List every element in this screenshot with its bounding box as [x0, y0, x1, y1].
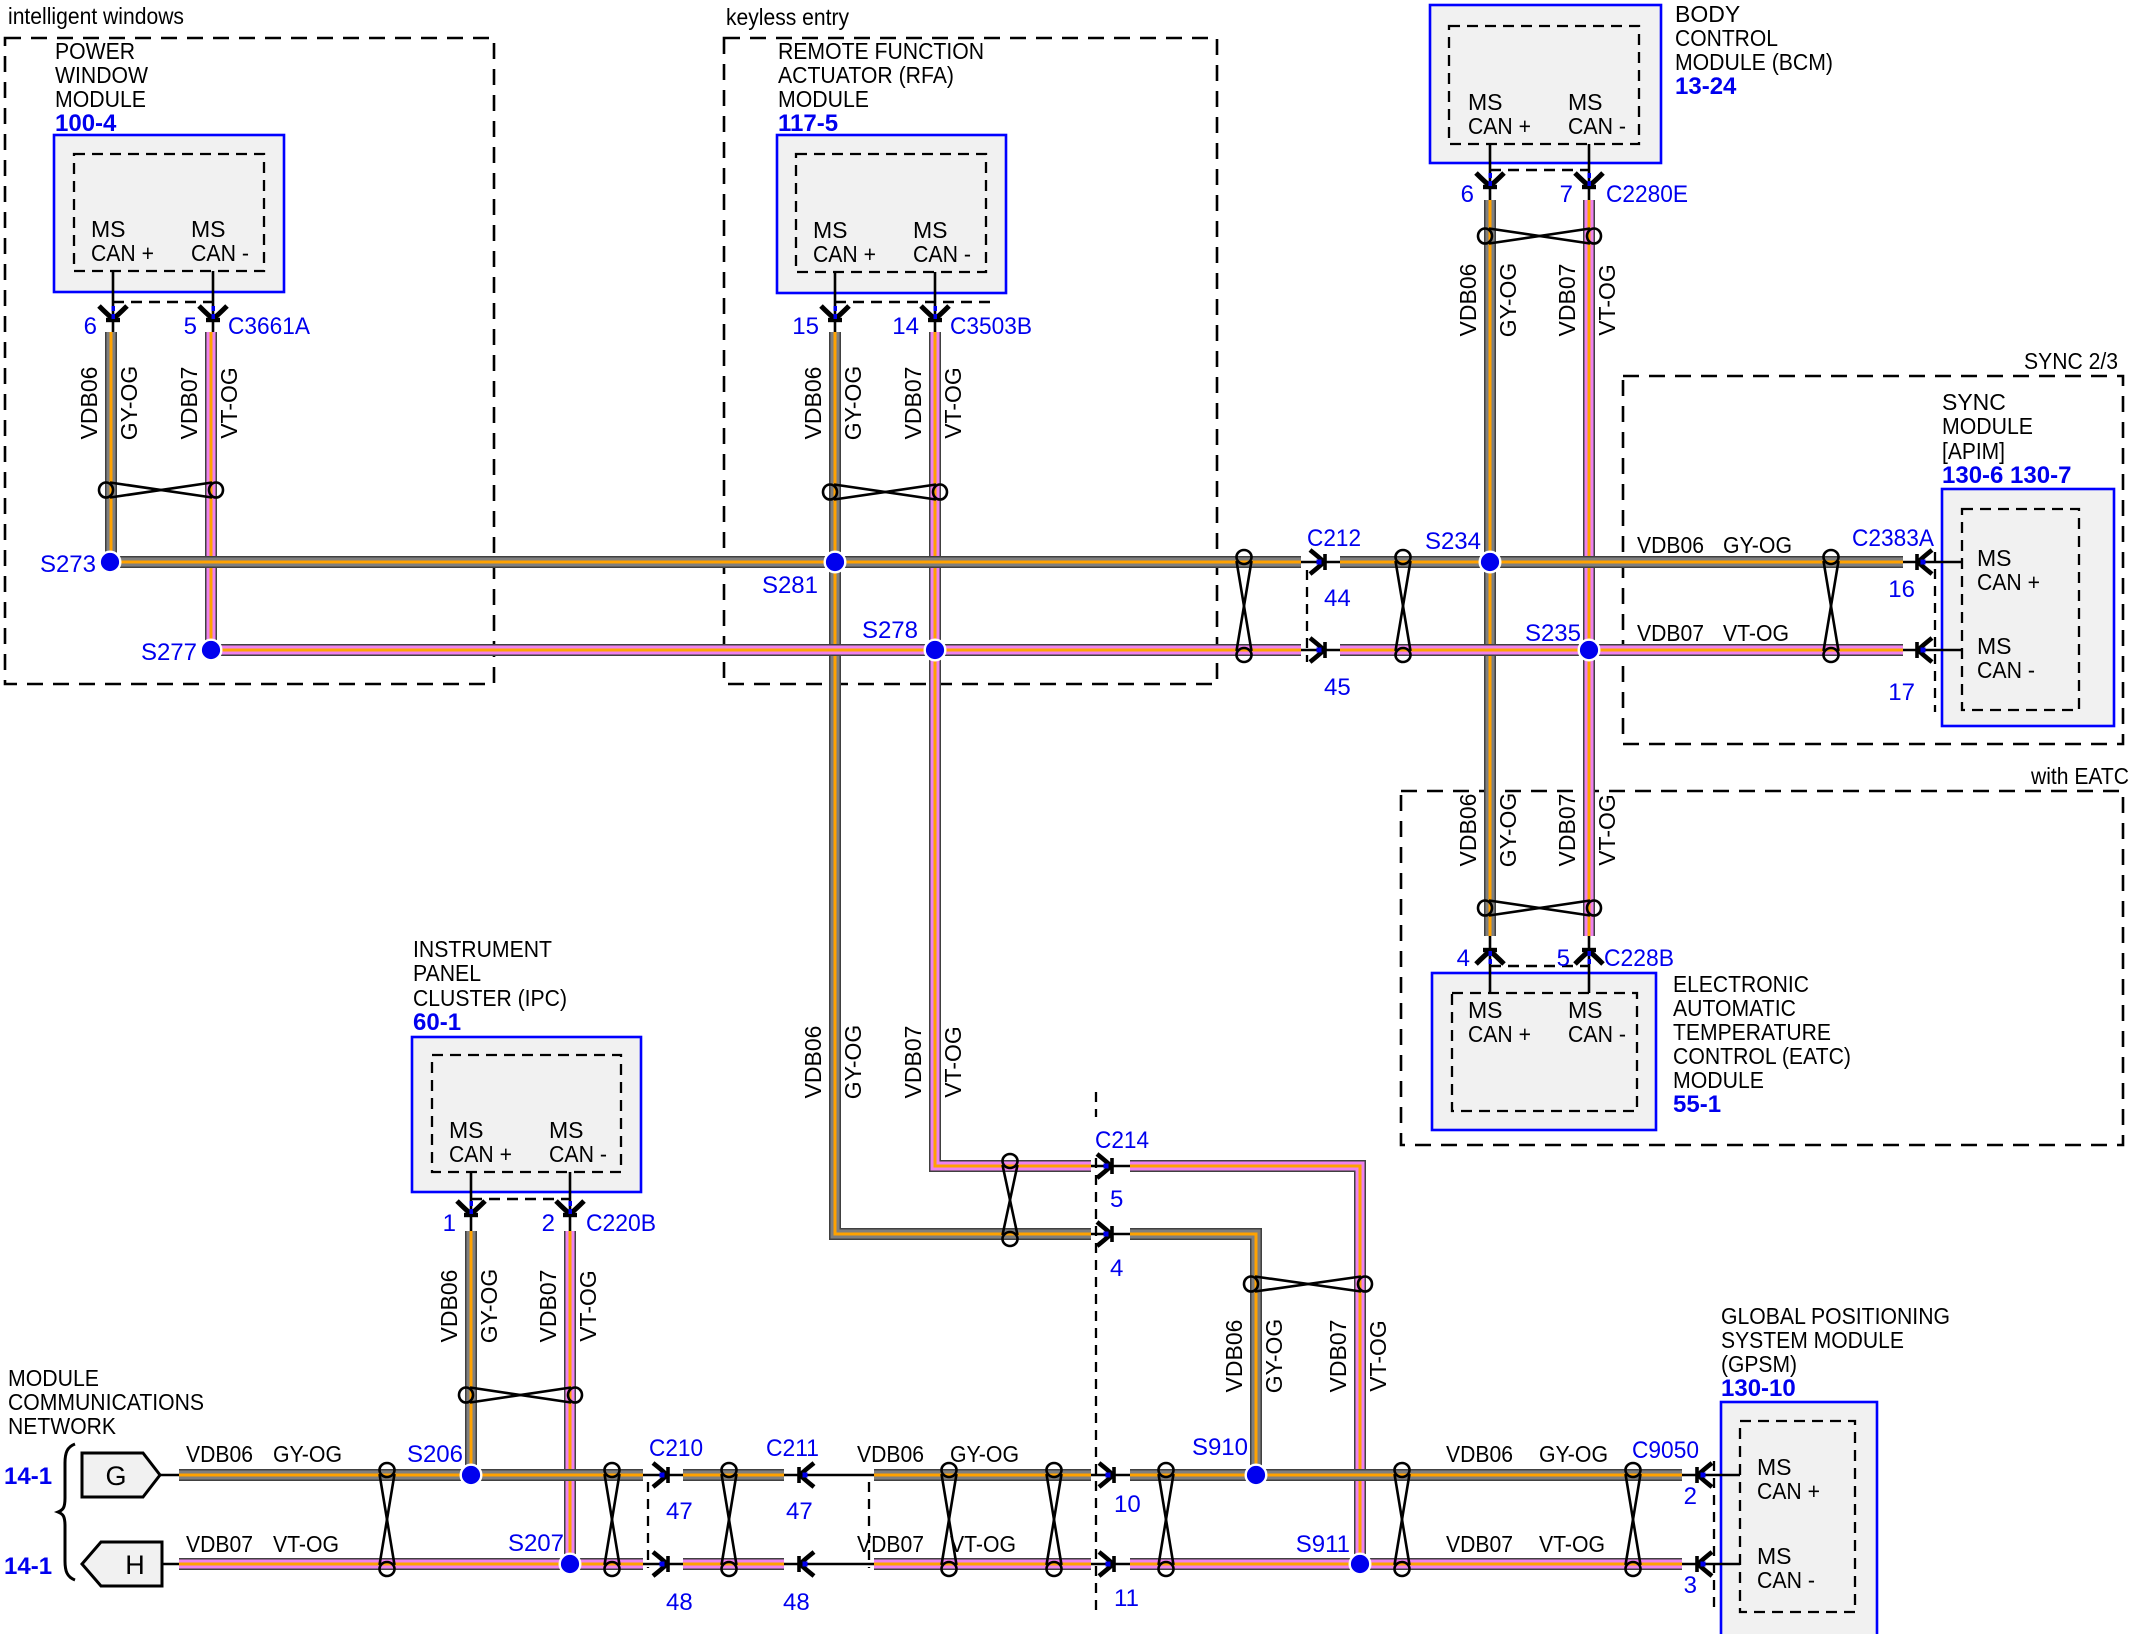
svg-text:S277: S277 — [141, 639, 197, 666]
svg-text:POWER: POWER — [55, 38, 135, 64]
wire VDB07 VT-OG bottom bus: C210 to C211 — [683, 1558, 784, 1570]
svg-text:GY-OG: GY-OG — [273, 1441, 342, 1467]
svg-text:GY-OG: GY-OG — [1261, 1319, 1287, 1394]
svg-text:ACTUATOR (RFA): ACTUATOR (RFA) — [778, 62, 954, 88]
dashed group box: intelligent windows — [5, 3, 494, 684]
svg-text:CAN +: CAN + — [91, 240, 154, 266]
splice S281 — [762, 552, 845, 599]
svg-text:VDB06: VDB06 — [1637, 532, 1704, 558]
svg-text:with EATC: with EATC — [2030, 763, 2129, 789]
svg-text:C9050: C9050 — [1632, 1437, 1699, 1464]
label: MODULE COMMUNICATIONS NETWORK — [8, 1365, 204, 1439]
labels VDB06/GY-OG on RFA GY wire — [800, 366, 866, 441]
svg-text:14-1: 14-1 — [4, 1463, 52, 1490]
wire VDB06 GY-OG top bus: C212 to SYNC C2383A pin16 — [1340, 556, 1903, 568]
svg-text:MODULE: MODULE — [55, 86, 146, 112]
module box: INSTRUMENT PANEL CLUSTER (IPC) 60-1 — [412, 936, 641, 1192]
svg-text:AUTOMATIC: AUTOMATIC — [1673, 995, 1796, 1021]
splice S206 — [407, 1441, 481, 1485]
svg-text:GY-OG: GY-OG — [1495, 793, 1521, 868]
svg-text:MS: MS — [1977, 633, 2012, 659]
labels VDB07/VT-OG on RFA VT wire — [900, 367, 966, 440]
svg-text:SYSTEM MODULE: SYSTEM MODULE — [1721, 1327, 1904, 1353]
twisted-pair symbol: bottom bus right of S207 — [605, 1463, 620, 1576]
svg-text:11: 11 — [1114, 1585, 1139, 1612]
svg-text:S281: S281 — [762, 572, 818, 599]
svg-text:VDB06: VDB06 — [76, 367, 102, 440]
svg-text:VDB06: VDB06 — [436, 1270, 462, 1343]
splice S910 — [1192, 1434, 1266, 1485]
twisted-pair symbol: PWM wire pair — [99, 483, 223, 498]
svg-text:C228B: C228B — [1604, 945, 1674, 972]
svg-text:CONTROL: CONTROL — [1675, 25, 1778, 51]
svg-text:GLOBAL POSITIONING: GLOBAL POSITIONING — [1721, 1303, 1950, 1329]
connector C211 pin 47 (bottom GY bus) — [766, 1435, 874, 1568]
svg-text:S235: S235 — [1525, 620, 1581, 647]
svg-text:4: 4 — [1457, 945, 1470, 972]
connector C3503B pins 15/14 at RFA — [792, 272, 1032, 340]
labels VDB06/GY-OG on RFA GY wire lower — [800, 1025, 866, 1100]
svg-text:2: 2 — [542, 1210, 555, 1237]
wire VDB07 VT-OG: IPC pin2 down to splice S207 — [564, 1231, 576, 1564]
svg-text:17: 17 — [1888, 679, 1915, 706]
connector tag H (network 14-1) — [4, 1542, 179, 1586]
module box: SYNC MODULE [APIM] 130-6 130-7 — [1942, 389, 2114, 726]
connector C2383A pins 16/17 at SYNC — [1852, 525, 1962, 712]
svg-text:SYNC: SYNC — [1942, 389, 2006, 415]
wire VDB07 VT-OG: C214 pin5 elbow down to splice S911 — [1130, 1166, 1360, 1564]
svg-text:VDB07: VDB07 — [176, 367, 202, 440]
svg-text:VT-OG: VT-OG — [1539, 1531, 1605, 1557]
svg-text:VDB06: VDB06 — [1446, 1441, 1513, 1467]
svg-text:H: H — [125, 1550, 145, 1580]
svg-text:VT-OG: VT-OG — [273, 1531, 339, 1557]
svg-text:CONTROL (EATC): CONTROL (EATC) — [1673, 1043, 1851, 1069]
svg-text:VT-OG: VT-OG — [1594, 264, 1620, 336]
svg-text:CAN -: CAN - — [1568, 113, 1626, 139]
svg-text:MODULE: MODULE — [1673, 1067, 1764, 1093]
svg-text:MS: MS — [449, 1117, 484, 1143]
svg-text:5: 5 — [1110, 1186, 1123, 1213]
wire VDB06 GY-OG top bus: S273 to C212 — [110, 556, 1301, 568]
svg-text:VDB07: VDB07 — [1554, 794, 1580, 867]
labels VDB07/VT-OG on EATC VT wire — [1554, 794, 1620, 867]
svg-text:CAN -: CAN - — [1757, 1567, 1815, 1593]
twisted-pair symbol: bottom bus left of C214 — [1047, 1463, 1062, 1576]
splice S207 — [508, 1530, 580, 1574]
svg-text:7: 7 — [1560, 181, 1573, 208]
svg-text:CAN +: CAN + — [449, 1141, 512, 1167]
twisted-pair symbol: RFA wire pair — [823, 485, 947, 500]
twisted-pair symbol: bottom bus right of C211 — [942, 1463, 957, 1576]
svg-text:MS: MS — [91, 216, 126, 242]
svg-text:MS: MS — [191, 216, 226, 242]
label VDB06 GY-OG on bottom bus right — [1446, 1441, 1608, 1467]
svg-text:GY-OG: GY-OG — [840, 1025, 866, 1100]
label VDB06 GY-OG on bottom bus left — [186, 1441, 342, 1467]
svg-text:C3503B: C3503B — [950, 313, 1032, 340]
svg-text:VT-OG: VT-OG — [940, 367, 966, 439]
splice S234 — [1425, 528, 1500, 572]
svg-text:VDB06: VDB06 — [1455, 794, 1481, 867]
svg-text:C2280E: C2280E — [1606, 181, 1688, 208]
svg-text:GY-OG: GY-OG — [476, 1269, 502, 1344]
svg-text:C214: C214 — [1095, 1127, 1149, 1154]
svg-text:VDB06: VDB06 — [1455, 264, 1481, 337]
svg-text:S910: S910 — [1192, 1434, 1248, 1461]
connector C214 pin 5 (VT elbow) — [1091, 1092, 1149, 1610]
svg-text:MS: MS — [1977, 545, 2012, 571]
twisted-pair symbol: bottom bus right of S911 — [1395, 1463, 1410, 1576]
wire VDB06 GY-OG bottom bus: C214 to GPSM C9050 pin2 — [1130, 1469, 1682, 1481]
svg-text:C220B: C220B — [586, 1210, 656, 1237]
svg-text:5: 5 — [184, 313, 197, 340]
labels VDB07/VT-OG on BCM VT wire — [1554, 264, 1620, 337]
connector C212 pin 44 (top GY bus) — [1301, 525, 1361, 662]
wire VDB06 GY-OG: RFA pin15 down through S281, elbow to C214 pin4 — [835, 332, 1091, 1234]
twisted-pair symbol: IPC wire pair — [459, 1388, 582, 1403]
svg-text:VT-OG: VT-OG — [1594, 794, 1620, 866]
svg-text:MS: MS — [1757, 1454, 1792, 1480]
svg-text:47: 47 — [666, 1498, 693, 1525]
wire VDB06 GY-OG: IPC pin1 down to splice S206 — [465, 1231, 477, 1475]
svg-text:MS: MS — [913, 217, 948, 243]
twisted-pair symbol: bottom bus right of C214 — [1159, 1463, 1174, 1576]
labels VDB06/GY-OG on BCM GY wire — [1455, 263, 1521, 338]
svg-text:VT-OG: VT-OG — [216, 367, 242, 439]
svg-text:MS: MS — [1757, 1543, 1792, 1569]
module box: ELECTRONIC AUTOMATIC TEMPERATURE CONTROL (EATC) MODULE 55-1 — [1432, 971, 1851, 1130]
svg-text:MS: MS — [813, 217, 848, 243]
label VDB07 VT-OG on bottom bus left — [186, 1531, 339, 1557]
svg-text:GY-OG: GY-OG — [950, 1441, 1019, 1467]
svg-text:TEMPERATURE: TEMPERATURE — [1673, 1019, 1831, 1045]
twisted-pair symbol: top bus left of C212 — [1237, 550, 1252, 662]
label VDB06 GY-OG on top bus at SYNC — [1637, 532, 1792, 558]
svg-text:CAN -: CAN - — [1977, 657, 2035, 683]
connector C211 pin 48 (bottom VT bus) — [783, 1552, 874, 1616]
svg-text:C210: C210 — [649, 1435, 703, 1462]
connector C214 pin 10 (bottom GY bus) — [1091, 1463, 1141, 1518]
svg-text:MS: MS — [549, 1117, 584, 1143]
svg-text:INSTRUMENT: INSTRUMENT — [413, 936, 552, 962]
svg-text:S273: S273 — [40, 551, 96, 578]
svg-text:CAN +: CAN + — [1468, 1021, 1531, 1047]
connector C214 pin 4 (GY elbow) — [1091, 1222, 1130, 1282]
svg-text:48: 48 — [666, 1589, 693, 1616]
svg-text:G: G — [105, 1461, 126, 1491]
svg-text:130-6 130-7: 130-6 130-7 — [1942, 462, 2071, 489]
svg-text:S278: S278 — [862, 617, 918, 644]
wire VDB07 VT-OG bottom bus: H tag to C210 — [179, 1558, 643, 1570]
svg-text:C2383A: C2383A — [1852, 525, 1934, 552]
svg-text:47: 47 — [786, 1498, 813, 1525]
svg-text:VDB06: VDB06 — [186, 1441, 253, 1467]
svg-text:CAN +: CAN + — [1757, 1478, 1820, 1504]
svg-text:14: 14 — [892, 313, 919, 340]
svg-text:NETWORK: NETWORK — [8, 1413, 117, 1439]
svg-text:C211: C211 — [766, 1435, 819, 1462]
connector C3661A pins 6/5 at PWM — [84, 271, 310, 340]
svg-text:MS: MS — [1468, 997, 1503, 1023]
svg-text:PANEL: PANEL — [413, 960, 481, 986]
dashed group box: with EATC — [1401, 763, 2129, 1145]
module box: GLOBAL POSITIONING SYSTEM MODULE (GPSM) 130-10 — [1721, 1303, 1950, 1634]
svg-text:COMMUNICATIONS: COMMUNICATIONS — [8, 1389, 204, 1415]
svg-text:48: 48 — [783, 1589, 810, 1616]
svg-text:GY-OG: GY-OG — [1539, 1441, 1608, 1467]
labels VDB07/VT-OG on RFA VT wire lower — [900, 1026, 966, 1099]
svg-text:keyless entry: keyless entry — [726, 4, 849, 30]
svg-text:CAN +: CAN + — [1977, 569, 2040, 595]
svg-text:VDB07: VDB07 — [900, 1026, 926, 1099]
wire VDB07 VT-OG top bus: C212 to SYNC C2383A pin17 — [1340, 644, 1903, 656]
svg-text:intelligent windows: intelligent windows — [8, 3, 184, 29]
svg-text:MS: MS — [1568, 89, 1603, 115]
svg-text:VDB06: VDB06 — [1221, 1320, 1247, 1393]
wire VDB07 VT-OG top bus: S277 to C212 — [211, 644, 1301, 656]
svg-text:VDB07: VDB07 — [186, 1531, 253, 1557]
dashed group box: keyless entry — [724, 4, 1217, 684]
svg-text:3: 3 — [1684, 1572, 1697, 1599]
connector C9050 pins 2/3 at GPSM — [1632, 1437, 1740, 1610]
twisted-pair symbol: top bus right of C212 — [1396, 550, 1411, 662]
svg-text:S206: S206 — [407, 1441, 463, 1468]
svg-text:VDB06: VDB06 — [857, 1441, 924, 1467]
svg-text:13-24: 13-24 — [1675, 73, 1737, 100]
svg-text:VT-OG: VT-OG — [940, 1026, 966, 1098]
labels VDB06/GY-OG on EATC GY wire — [1455, 793, 1521, 868]
splice S911 — [1296, 1531, 1371, 1574]
splice S273 — [40, 551, 120, 578]
connector C2280E pins 6/7 at BCM — [1461, 144, 1688, 208]
svg-text:44: 44 — [1324, 585, 1351, 612]
svg-text:BODY: BODY — [1675, 1, 1740, 27]
svg-text:MS: MS — [1468, 89, 1503, 115]
labels VDB06/GY-OG on PWM GY wire — [76, 366, 142, 441]
svg-text:ELECTRONIC: ELECTRONIC — [1673, 971, 1809, 997]
wire VDB07 VT-OG bottom bus: C211 to C214 — [874, 1558, 1091, 1570]
connector C210 pin 48 (bottom VT bus) — [643, 1552, 693, 1616]
svg-text:VDB07: VDB07 — [1446, 1531, 1513, 1557]
svg-text:MODULE: MODULE — [1942, 413, 2033, 439]
svg-text:CAN -: CAN - — [191, 240, 249, 266]
svg-text:VT-OG: VT-OG — [1365, 1320, 1391, 1392]
svg-text:VDB06: VDB06 — [800, 1026, 826, 1099]
svg-text:WINDOW: WINDOW — [55, 62, 148, 88]
svg-text:117-5: 117-5 — [778, 110, 838, 137]
svg-text:[APIM]: [APIM] — [1942, 438, 2005, 464]
svg-text:VDB07: VDB07 — [1325, 1320, 1351, 1393]
svg-text:S234: S234 — [1425, 528, 1481, 555]
svg-text:VDB07: VDB07 — [857, 1531, 924, 1557]
twisted-pair symbol: EATC wire pair — [1478, 901, 1601, 916]
svg-text:CAN -: CAN - — [1568, 1021, 1626, 1047]
connector C210 pin 47 (bottom GY bus) — [643, 1435, 703, 1568]
svg-text:GY-OG: GY-OG — [840, 366, 866, 441]
connector C212 pin 45 (top VT bus) — [1301, 638, 1351, 701]
svg-text:55-1: 55-1 — [1673, 1091, 1721, 1118]
wire VDB07 VT-OG: PWM pin5 down to splice S277 — [205, 332, 217, 650]
svg-text:2: 2 — [1684, 1483, 1697, 1510]
brace for network tags — [58, 1444, 75, 1580]
svg-text:CAN +: CAN + — [1468, 113, 1531, 139]
svg-text:130-10: 130-10 — [1721, 1375, 1796, 1402]
dashed group box: SYNC 2/3 — [1623, 348, 2123, 744]
splice S277 — [141, 639, 221, 666]
wire VDB06 GY-OG: C214 pin4 elbow down to splice S910 — [1130, 1234, 1256, 1475]
labels VDB07/VT-OG on S911 wire — [1325, 1320, 1391, 1393]
svg-text:CLUSTER (IPC): CLUSTER (IPC) — [413, 985, 567, 1011]
connector C220B pins 1/2 at IPC — [443, 1172, 656, 1237]
wire VDB06 GY-OG bottom bus: C211 to C214 — [874, 1469, 1091, 1481]
wire VDB07 VT-OG: BCM pin7 down through S235 to EATC pin5 — [1583, 200, 1595, 936]
label VDB07 VT-OG on top bus at SYNC — [1637, 620, 1789, 646]
labels VDB06/GY-OG on IPC GY wire — [436, 1269, 502, 1344]
svg-text:45: 45 — [1324, 674, 1351, 701]
svg-text:VT-OG: VT-OG — [950, 1531, 1016, 1557]
svg-text:6: 6 — [84, 313, 97, 340]
connector C228B pins 4/5 at EATC — [1457, 936, 1674, 993]
svg-text:MODULE: MODULE — [8, 1365, 99, 1391]
twisted-pair symbol: C214-to-S910/S911 wire pair — [1244, 1277, 1372, 1292]
svg-text:10: 10 — [1114, 1491, 1141, 1518]
svg-text:CAN -: CAN - — [913, 241, 971, 267]
twisted-pair symbol: SYNC wire pair — [1824, 550, 1839, 662]
svg-text:14-1: 14-1 — [4, 1553, 52, 1580]
label VDB06 GY-OG on bottom bus mid — [857, 1441, 1019, 1467]
labels VDB06/GY-OG on S910 wire — [1221, 1319, 1287, 1394]
svg-text:CAN -: CAN - — [549, 1141, 607, 1167]
svg-text:GY-OG: GY-OG — [1723, 532, 1792, 558]
svg-text:MODULE (BCM): MODULE (BCM) — [1675, 49, 1833, 75]
label VDB07 VT-OG on bottom bus right — [1446, 1531, 1605, 1557]
svg-text:5: 5 — [1557, 945, 1570, 972]
wire VDB06 GY-OG bottom bus: C210 to C211 — [683, 1469, 784, 1481]
wire VDB07 VT-OG bottom bus: C214 to GPSM C9050 pin3 — [1130, 1558, 1682, 1570]
svg-text:VDB07: VDB07 — [1637, 620, 1704, 646]
connector tag G (network 14-1) — [4, 1453, 179, 1497]
module box: POWER WINDOW MODULE (PWM) 100-4 — [54, 38, 284, 292]
module box: BODY CONTROL MODULE (BCM) 13-24 — [1430, 1, 1833, 163]
svg-text:VT-OG: VT-OG — [1723, 620, 1789, 646]
svg-text:GY-OG: GY-OG — [116, 366, 142, 441]
module box: REMOTE FUNCTION ACTUATOR (RFA) MODULE 117-5 — [777, 38, 1006, 293]
twisted-pair symbol: elbow segments to C214 — [1003, 1154, 1018, 1246]
svg-text:GY-OG: GY-OG — [1495, 263, 1521, 338]
svg-text:SYNC 2/3: SYNC 2/3 — [2024, 348, 2118, 374]
twisted-pair symbol: bottom bus between C210 and C211 — [722, 1463, 737, 1576]
twisted-pair symbol: BCM wire pair — [1478, 229, 1601, 244]
svg-text:S207: S207 — [508, 1530, 564, 1557]
wire VDB06 GY-OG: PWM pin6 down to splice S273 — [105, 332, 117, 562]
svg-text:CAN +: CAN + — [813, 241, 876, 267]
svg-text:16: 16 — [1888, 576, 1915, 603]
splice S235 — [1525, 620, 1599, 660]
svg-text:VDB07: VDB07 — [1554, 264, 1580, 337]
labels VDB07/VT-OG on PWM VT wire — [176, 367, 242, 440]
svg-text:(GPSM): (GPSM) — [1721, 1351, 1797, 1377]
splice S278 — [862, 617, 945, 660]
svg-text:C212: C212 — [1307, 525, 1361, 552]
wire VDB07 VT-OG: RFA pin14 down through S278, elbow to C214 pin5 — [935, 332, 1091, 1166]
svg-text:VDB07: VDB07 — [535, 1270, 561, 1343]
svg-text:60-1: 60-1 — [413, 1009, 461, 1036]
svg-text:MS: MS — [1568, 997, 1603, 1023]
label VDB07 VT-OG on bottom bus mid — [857, 1531, 1016, 1557]
twisted-pair symbol: bottom bus left of S206 — [380, 1463, 395, 1576]
svg-text:6: 6 — [1461, 181, 1474, 208]
svg-text:MODULE: MODULE — [778, 86, 869, 112]
connector C214 pin 11 (bottom VT bus) — [1091, 1552, 1139, 1612]
svg-text:REMOTE FUNCTION: REMOTE FUNCTION — [778, 38, 984, 64]
wire VDB06 GY-OG: BCM pin6 down through S234 to EATC pin4 — [1484, 200, 1496, 936]
svg-text:C3661A: C3661A — [228, 313, 310, 340]
svg-text:4: 4 — [1110, 1255, 1123, 1282]
svg-text:VDB06: VDB06 — [800, 367, 826, 440]
svg-text:1: 1 — [443, 1210, 456, 1237]
svg-text:VT-OG: VT-OG — [575, 1270, 601, 1342]
labels VDB07/VT-OG on IPC VT wire — [535, 1270, 601, 1343]
svg-text:VDB07: VDB07 — [900, 367, 926, 440]
svg-text:15: 15 — [792, 313, 819, 340]
twisted-pair symbol: bottom bus before C9050 — [1626, 1463, 1641, 1576]
svg-text:100-4: 100-4 — [55, 110, 117, 137]
svg-text:S911: S911 — [1296, 1531, 1350, 1558]
wire VDB06 GY-OG bottom bus: G tag to C210 — [179, 1469, 643, 1481]
